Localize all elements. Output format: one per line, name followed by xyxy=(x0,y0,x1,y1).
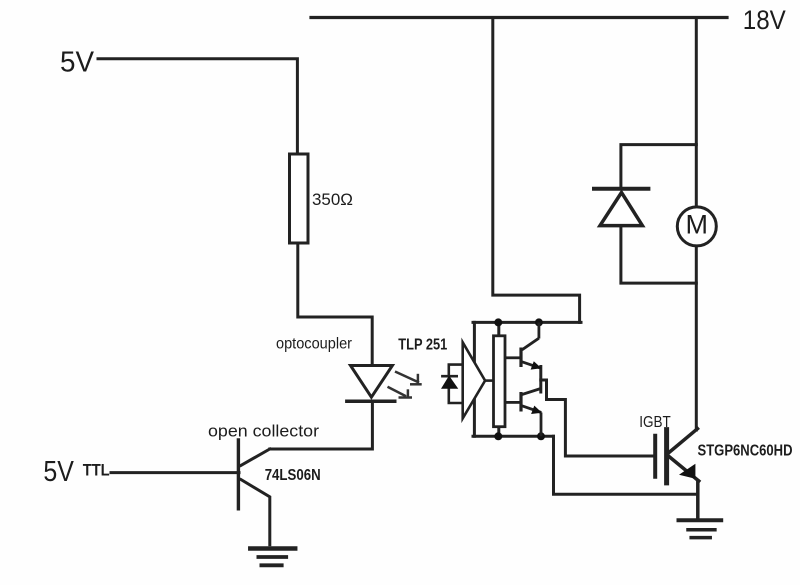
svg-text:74LS06N: 74LS06N xyxy=(265,467,321,484)
svg-text:350Ω: 350Ω xyxy=(312,190,353,209)
svg-text:M: M xyxy=(686,210,709,240)
svg-text:5V: 5V xyxy=(43,456,74,488)
svg-text:optocoupler: optocoupler xyxy=(276,336,353,353)
svg-text:5V: 5V xyxy=(60,47,95,79)
svg-text:open collector: open collector xyxy=(208,422,319,441)
svg-text:TTL: TTL xyxy=(83,460,110,479)
svg-text:STGP6NC60HD: STGP6NC60HD xyxy=(698,442,793,459)
svg-text:TLP 251: TLP 251 xyxy=(398,337,447,354)
svg-text:18V: 18V xyxy=(743,5,786,35)
svg-text:IGBT: IGBT xyxy=(639,414,671,431)
